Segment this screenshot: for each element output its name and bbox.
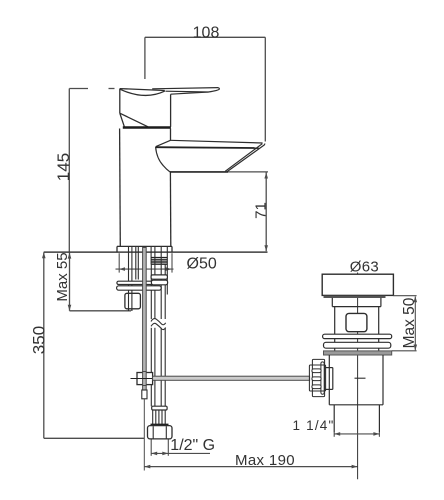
drain body upper (335, 307, 379, 351)
dimension 145 (69, 89, 114, 252)
threaded shank under deck (151, 247, 167, 295)
svg-text:Max 50: Max 50 (401, 297, 418, 348)
svg-text:Max 190: Max 190 (235, 452, 295, 469)
drain centerline (357, 273, 359, 480)
svg-text:1 1/4": 1 1/4" (292, 418, 334, 433)
svg-text:Ø50: Ø50 (187, 256, 217, 273)
deck line (44, 251, 268, 253)
dimension Max 190 (144, 466, 357, 468)
spout bottom extension to 71 dim (228, 171, 268, 173)
stud through nut (129, 293, 132, 311)
svg-text:350: 350 (29, 326, 48, 354)
Max190 left extension (143, 399, 145, 471)
pipe break squiggle (151, 319, 166, 330)
dimension 350 (44, 252, 144, 438)
washer bar A (117, 281, 161, 284)
svg-text:1/2" G: 1/2" G (170, 437, 215, 454)
drain step (332, 298, 381, 307)
dimension 1 1/4 (334, 432, 379, 436)
rod center tick (355, 377, 366, 379)
svg-text:108: 108 (193, 24, 220, 41)
clamp block (137, 373, 153, 385)
svg-text:145: 145 (54, 153, 73, 181)
mounting nut (125, 293, 140, 309)
dimension Max 55 (70, 253, 132, 311)
dimension 1/2 G (151, 440, 210, 456)
lift rod end cap (142, 390, 147, 399)
dimension 108 (145, 37, 265, 141)
drain flange (322, 274, 393, 295)
spout (156, 140, 265, 172)
shank collar (151, 275, 167, 279)
pipe threaded end (153, 410, 166, 424)
pipe lower collar (152, 406, 167, 410)
pop-up mechanism outer (312, 359, 324, 396)
faucet handle body (120, 89, 171, 128)
supply pipe (151, 247, 165, 406)
clamp screw line (131, 378, 179, 380)
svg-text:Ø63: Ø63 (350, 259, 379, 276)
drain washer 1 (323, 334, 392, 338)
dimension Max 50 (392, 296, 417, 351)
hex nut 1/2G (148, 426, 173, 439)
mounting stud (129, 247, 139, 311)
pop-up mechanism wide (309, 365, 325, 391)
drain flange lip shadow (324, 296, 386, 298)
handle bottom edge (123, 126, 171, 128)
pop-up vertical bar (321, 362, 324, 394)
pop-up mechanism bracket (325, 368, 333, 390)
pop-up slots (312, 369, 321, 373)
svg-text:71: 71 (252, 202, 269, 219)
lift rod through clamp (143, 372, 147, 386)
handle lever blade (152, 88, 219, 95)
dimension diameter 50 (116, 253, 174, 272)
faucet base flange (117, 246, 172, 252)
overflow window (346, 313, 367, 331)
horizontal pop-up rod (153, 376, 310, 380)
drain locknut (324, 351, 392, 355)
washer bar right (151, 280, 167, 285)
pop-up lift rod (143, 248, 147, 391)
washer bar B (117, 286, 162, 290)
drain washer 2 (324, 342, 391, 348)
svg-text:Max 55: Max 55 (54, 252, 71, 301)
faucet column (120, 129, 171, 247)
dimension 71 (265, 173, 267, 252)
tailpiece (334, 405, 379, 433)
drain body lower (329, 355, 383, 405)
